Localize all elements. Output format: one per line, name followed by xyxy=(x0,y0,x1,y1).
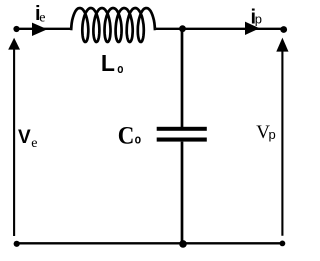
svg-text:V: V xyxy=(18,127,31,148)
svg-text:L: L xyxy=(101,50,115,76)
node bottom-left xyxy=(14,241,20,247)
svg-text:o: o xyxy=(117,63,123,76)
svg-text:p: p xyxy=(269,127,276,142)
node bottom-right xyxy=(280,241,286,247)
svg-text:p: p xyxy=(255,12,262,27)
node top-left xyxy=(13,26,19,32)
wire top-right horizontal xyxy=(156,28,284,30)
arrow of voltage V_p up xyxy=(276,38,288,52)
node bottom-mid junction xyxy=(179,240,187,248)
inductor L_o coil xyxy=(70,8,156,42)
node top-mid junction xyxy=(179,25,186,32)
arrow of voltage V_e up xyxy=(8,38,20,50)
node top-right xyxy=(280,26,287,33)
capacitor C_o bottom plate xyxy=(157,138,207,142)
svg-text:e: e xyxy=(31,136,37,151)
arrow of current i_p xyxy=(245,22,260,35)
wire capacitor branch lower xyxy=(181,142,184,244)
wire right rail vertical xyxy=(281,48,283,236)
svg-text:o: o xyxy=(135,133,141,147)
wire bottom horizontal xyxy=(17,242,284,244)
wire top-left horizontal xyxy=(17,28,71,30)
wire left rail vertical xyxy=(13,48,15,236)
svg-text:C: C xyxy=(118,123,135,150)
svg-text:e: e xyxy=(39,10,45,25)
arrow of current i_e xyxy=(32,23,47,36)
capacitor C_o top plate xyxy=(157,127,207,131)
wire capacitor branch upper xyxy=(181,29,184,127)
